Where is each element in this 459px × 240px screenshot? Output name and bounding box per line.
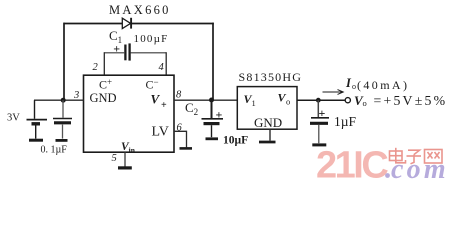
svg-text:3: 3 [73,90,79,101]
battery 3V [27,100,48,138]
ground (1uF) [312,143,326,146]
svg-text:(40mA): (40mA) [357,78,409,92]
wire mid rail (pin8 to U2) [174,99,237,101]
svg-text:LV: LV [152,125,169,140]
ground (U2) [259,141,276,144]
svg-text:GND: GND [90,91,117,105]
svg-text:S81350HG: S81350HG [239,70,303,84]
wire left outer vertical [63,23,65,101]
wire right outer vertical [212,23,214,101]
junction output [316,98,321,103]
svg-text:0. 1µF: 0. 1µF [41,145,68,156]
ground (battery) [29,139,43,142]
svg-text:2: 2 [93,62,99,73]
wire pin6 lead [174,131,187,147]
svg-text:3V: 3V [7,113,20,124]
node output terminal [345,98,350,103]
svg-text:+: + [216,108,223,122]
capacitor C1 [104,42,166,61]
wire U2 gnd lead [269,129,271,140]
ground (0.1uF) [56,139,68,142]
svg-text:V: V [151,92,161,107]
svg-text:GND: GND [254,115,282,130]
wire left rail [34,99,84,101]
IC U2 S81350HG box [237,87,297,130]
svg-text:MAX660: MAX660 [109,3,171,17]
wire pin2 leg [103,52,105,75]
svg-text:o: o [363,98,367,108]
svg-text:1µF: 1µF [334,114,357,129]
svg-text:21IC: 21IC [316,145,388,187]
junction C2 [209,98,214,103]
capacitor C2 [202,100,224,137]
capacitor 0.1uF [53,100,72,138]
watermark dianziwang (drawn) [390,148,443,164]
svg-text:5: 5 [112,153,117,164]
svg-text:100µF: 100µF [134,33,169,45]
junction left rail [61,98,66,103]
svg-text:8: 8 [176,90,182,101]
wire top left segment [64,23,123,25]
wire pin4 leg [165,52,167,75]
diode D1 [122,18,131,29]
wire output rail [297,99,345,101]
wire top right segment [131,23,214,25]
svg-text:10µF: 10µF [223,135,248,147]
svg-text:+: + [161,100,167,111]
ground (pin6) [180,147,193,150]
svg-text:1: 1 [252,98,256,108]
ground (C2) [206,137,219,140]
svg-text:o: o [352,82,356,91]
svg-text:4: 4 [159,62,165,73]
svg-text:com: com [391,154,449,185]
ground (pin5) [118,166,132,169]
svg-text:+: + [319,106,326,120]
wire pin5 lead [124,152,126,166]
svg-text:=+5V±5%: =+5V±5% [374,93,448,108]
capacitor 1uF [310,100,329,143]
arrow Io [323,90,344,95]
watermark dot [385,173,390,178]
IC U1 MAX660 box [84,75,175,152]
svg-text:o: o [286,97,290,107]
